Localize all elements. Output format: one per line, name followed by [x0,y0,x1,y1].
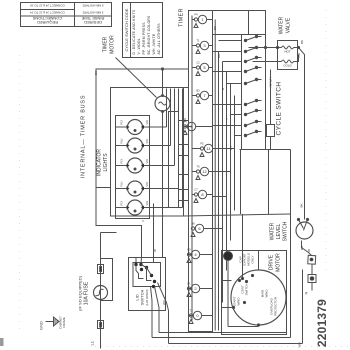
svg-text:FLU: FLU [120,138,124,143]
svg-text:PLY: PLY [120,201,124,206]
svg-text:PLY: PLY [120,159,124,164]
svg-text:SWITCH: SWITCH [283,221,289,241]
svg-text:VALVE: VALVE [286,17,292,33]
svg-text:N: N [304,292,309,295]
svg-text:FRAME: FRAME [62,317,66,328]
svg-text:7: 7 [203,93,206,98]
svg-text:2201379: 2201379 [315,299,329,347]
svg-text:BK: BK [300,203,304,207]
svg-text:BK: BK [213,26,217,30]
svg-text:10A FUSE: 10A FUSE [84,281,90,305]
svg-text:LEVEL: LEVEL [276,224,282,240]
svg-text:3: 3 [203,43,206,48]
svg-text:5 MIN AGITATE: 5 MIN AGITATE [82,4,103,8]
svg-text:CONNECT J4 & J2 TO J8: CONNECT J4 & J2 TO J8 [30,4,65,8]
svg-text:AD -ALL OTHERS: AD -ALL OTHERS [157,23,161,55]
svg-text:B3: B3 [196,89,200,93]
svg-text:INDICATOR: INDICATOR [97,149,103,176]
svg-text:BK: BK [300,40,304,44]
svg-text:WATER: WATER [279,16,285,34]
svg-text:12: 12 [202,169,207,174]
svg-text:T6: T6 [196,165,200,169]
svg-text:MOTOR: MOTOR [110,35,116,54]
svg-text:L1: L1 [90,340,95,345]
svg-text:V -WOOL: V -WOOL [137,38,141,54]
svg-text:BK: BK [183,118,187,122]
svg-text:8: 8 [201,192,204,197]
svg-text:CYCLE SWITCH: CYCLE SWITCH [276,82,283,136]
svg-text:2: 2 [194,286,197,291]
svg-text:(LID OPEN): (LID OPEN) [145,289,149,305]
svg-text:W: W [153,249,157,252]
svg-text:C2: C2 [196,61,200,65]
svg-text:BC -BRIGHT COLORS: BC -BRIGHT COLORS [147,15,151,55]
svg-text:RINSE TIME: RINSE TIME [81,16,104,21]
svg-text:3 MIN AGITATE: 3 MIN AGITATE [82,11,103,15]
svg-text:B8: B8 [191,222,195,226]
svg-text:P1: P1 [187,282,191,286]
svg-text:WH: WH [162,300,166,305]
svg-text:VIO: VIO [145,139,149,143]
svg-text:CONNECTIONS: CONNECTIONS [32,16,62,21]
svg-text:VIO: VIO [145,201,149,205]
svg-text:C7: C7 [194,188,198,192]
svg-text:FLU: FLU [120,181,124,186]
svg-text:TIMER: TIMER [179,8,185,27]
svg-text:T1: T1 [196,39,200,43]
svg-text:DRIVE: DRIVE [269,254,275,270]
svg-text:BU: BU [300,246,304,250]
svg-text:VIO: VIO [145,182,149,186]
svg-text:WATER: WATER [270,222,276,240]
svg-text:HOT: HOT [284,50,291,54]
svg-text:K9: K9 [187,248,191,252]
svg-text:PP -PERM PRESS: PP -PERM PRESS [142,22,146,55]
svg-text:(IF SO EQUIPPED): (IF SO EQUIPPED) [78,275,83,311]
svg-text:WIND: WIND [237,297,241,306]
svg-text:GND: GND [39,321,44,330]
svg-text:Y: Y [225,118,229,120]
svg-text:T2: T2 [189,309,193,313]
svg-text:PLY: PLY [120,120,124,125]
svg-text:0: 0 [196,313,199,318]
svg-text:MOTOR: MOTOR [276,253,282,272]
svg-text:5: 5 [203,65,206,70]
svg-text:11: 11 [206,146,211,151]
svg-text:SWITCH: SWITCH [140,290,145,306]
svg-text:BK: BK [94,71,98,75]
svg-text:ONLY: ONLY [251,256,255,264]
svg-text:P4: P4 [194,13,198,17]
svg-text:PROTECTOR: PROTECTOR [274,296,278,316]
svg-text:INTERNAL— TIMER BUSS: INTERNAL— TIMER BUSS [81,95,87,179]
svg-text:V: V [141,220,145,222]
svg-text:VIO: VIO [145,120,149,124]
svg-text:4: 4 [194,252,197,257]
svg-text:1: 1 [201,17,204,22]
svg-text:COLD: COLD [283,64,292,68]
svg-text:W: W [307,249,311,252]
svg-text:LIGHTS: LIGHTS [103,153,109,172]
svg-text:CYCLE SWITCH CODE: CYCLE SWITCH CODE [124,8,129,51]
svg-text:WIND: WIND [265,289,269,298]
svg-text:CONNECT J4 & J2 TO J4: CONNECT J4 & J2 TO J4 [30,11,65,15]
svg-text:SWITCH: SWITCH [245,284,249,296]
svg-text:VIO: VIO [145,159,149,163]
svg-text:WH -WHITE: WH -WHITE [152,33,156,54]
svg-text:TIMER: TIMER [103,36,109,52]
svg-text:GY: GY [229,146,233,150]
svg-text:6: 6 [198,226,201,231]
svg-text:VIO: VIO [297,52,301,58]
svg-text:P5: P5 [200,142,204,146]
svg-text:D -DELICATE AND KNITS: D -DELICATE AND KNITS [132,9,136,54]
